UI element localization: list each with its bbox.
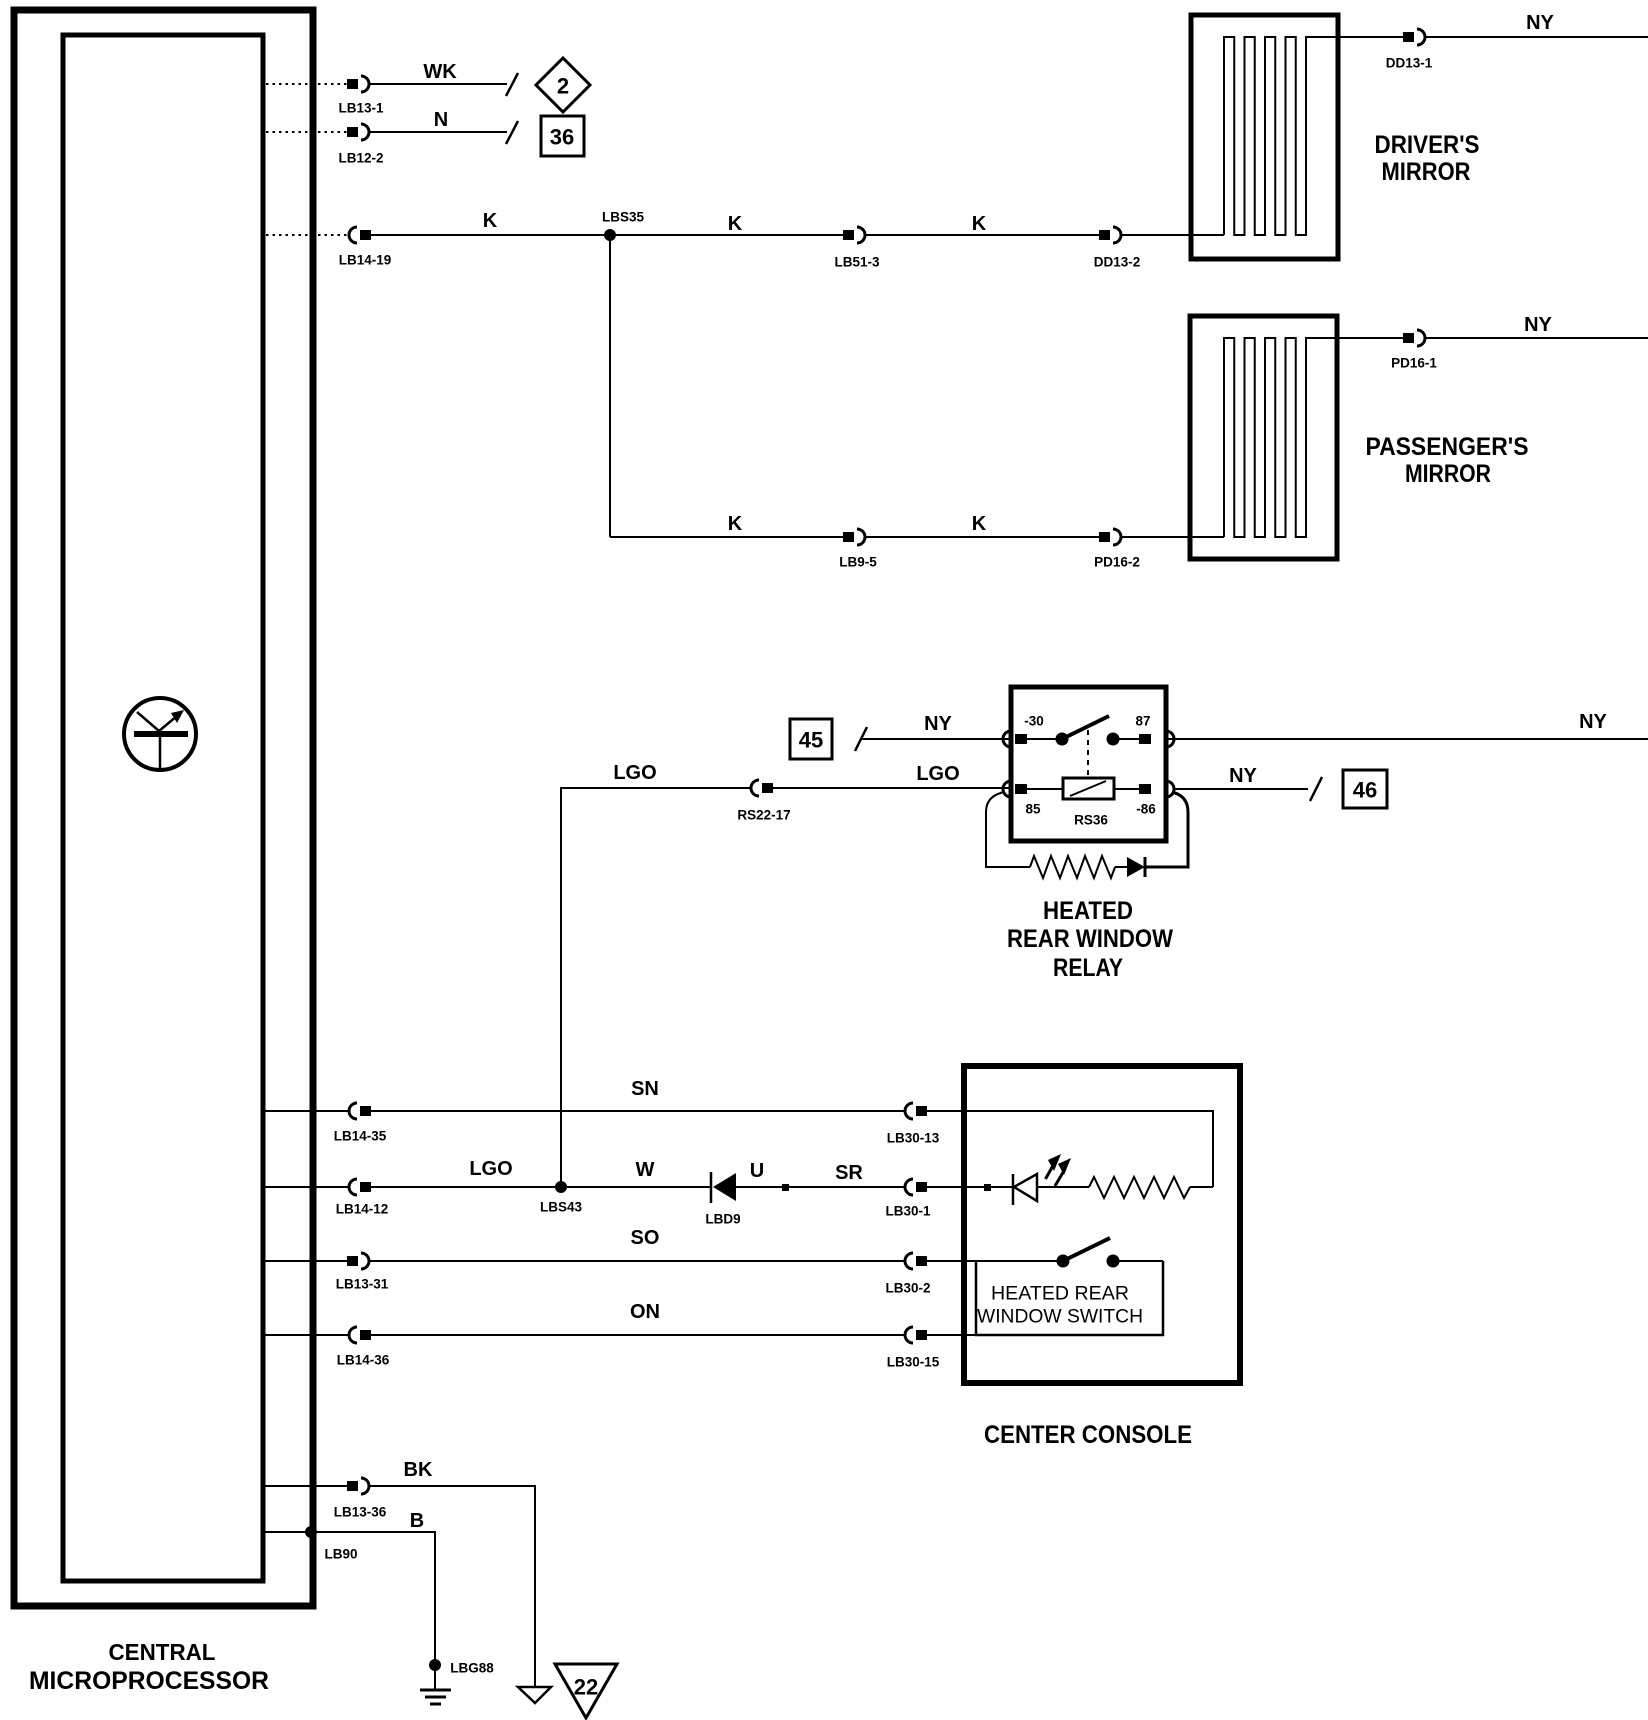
wire LED to resistor (1037, 1186, 1089, 1188)
wire N stub from microprocessor (266, 131, 347, 133)
resistor in console (1089, 1177, 1190, 1198)
connector LB9-5 (843, 529, 865, 545)
svg-text:RS22-17: RS22-17 (737, 808, 790, 823)
svg-text:K: K (728, 513, 743, 535)
node LBS35 (604, 229, 616, 241)
svg-text:87: 87 (1135, 714, 1150, 729)
wire ON to console (371, 1334, 905, 1336)
wire SO inside console to switch (927, 1260, 1057, 1262)
wire NY from passenger mirror (1337, 337, 1403, 339)
svg-text:W: W (636, 1159, 655, 1181)
wire break slash N (506, 121, 518, 144)
wire SO to console (369, 1260, 905, 1262)
svg-text:NY: NY (1526, 12, 1554, 34)
wire BK stub from microprocessor (265, 1485, 349, 1487)
junction dot on wire U (782, 1184, 789, 1191)
relay actuation dashed link (1087, 730, 1089, 778)
center console box (964, 1066, 1240, 1383)
heated rear window relay box RS36 (1011, 687, 1166, 841)
relay pin 30 (1003, 714, 1044, 748)
connector DD13-2 (1099, 227, 1121, 243)
relay switch contact (1027, 716, 1139, 746)
connector LB13-36 (347, 1478, 369, 1494)
connector LB51-3 (843, 227, 865, 243)
driver mirror box (1191, 15, 1338, 259)
ground symbol (420, 1690, 451, 1704)
ground arrow head (518, 1687, 551, 1703)
grid reference box 46 (1343, 770, 1387, 808)
wire K into passenger mirror (1121, 536, 1224, 538)
svg-text:LB30-1: LB30-1 (885, 1204, 931, 1219)
svg-text:LB30-2: LB30-2 (885, 1281, 930, 1296)
relay coil (1063, 778, 1114, 799)
connector PD16-1 (1403, 330, 1425, 346)
wire LGO to node LBS43 (371, 1186, 561, 1188)
svg-text:LB13-36: LB13-36 (334, 1505, 387, 1520)
wire K node to LB9-5 (610, 536, 843, 538)
wire NY to edge (1425, 36, 1648, 38)
wire K LB51-3 to DD13-2 (865, 234, 1099, 236)
wire NY from driver mirror (1338, 36, 1403, 38)
wire SR inside console to LED (927, 1186, 1013, 1188)
svg-text:BK: BK (404, 1459, 433, 1481)
wire break slash NY 46 (1310, 777, 1322, 801)
LED indicator in console (1013, 1154, 1071, 1205)
connector LB13-31 (347, 1253, 369, 1269)
wire to ground symbol (434, 1665, 436, 1690)
svg-text:HEATED: HEATED (1043, 897, 1133, 925)
wire NY to edge (1425, 337, 1648, 339)
heated rear window switch outline box (976, 1261, 1163, 1335)
diode LBD9 (705, 1172, 740, 1227)
svg-text:NY: NY (1229, 765, 1257, 787)
svg-text:PD16-2: PD16-2 (1094, 555, 1140, 570)
connector LB30-15 (905, 1327, 927, 1343)
svg-text:36: 36 (550, 125, 574, 150)
svg-text:LB12-2: LB12-2 (338, 151, 383, 166)
svg-text:HEATED REAR: HEATED REAR (991, 1284, 1129, 1305)
svg-text:LB14-12: LB14-12 (336, 1202, 389, 1217)
wire W node to diode (561, 1186, 711, 1188)
wire K vertical from LBS35 to passenger branch (609, 235, 611, 537)
wire SN inside console (927, 1111, 1213, 1187)
svg-text:K: K (728, 213, 743, 235)
connector LB30-2 (905, 1253, 927, 1269)
wire break slash NY 45 (855, 727, 867, 751)
wire SN to console (371, 1110, 905, 1112)
connector PD16-2 (1099, 529, 1121, 545)
node LBS43 (555, 1181, 567, 1193)
connector LB14-35 (349, 1103, 371, 1119)
connector LB12-2 (347, 124, 369, 140)
connector LB14-19 (349, 227, 371, 243)
wire U diode to LB30-1 (736, 1186, 905, 1188)
svg-text:ON: ON (630, 1301, 660, 1323)
wire WK stub from microprocessor (266, 83, 347, 85)
relay suppression loop wire right (1145, 792, 1188, 867)
grid reference box 36 (541, 116, 584, 156)
svg-text:LB14-19: LB14-19 (339, 253, 392, 268)
connector LB13-1 (347, 76, 369, 92)
wire ON stub from microprocessor (265, 1334, 349, 1336)
svg-text:LB13-31: LB13-31 (336, 1277, 389, 1292)
junction dot inside console (984, 1184, 991, 1191)
ground splice LBG88 (429, 1659, 441, 1671)
wire B from microprocessor to ground (265, 1532, 435, 1662)
svg-text:LB30-13: LB30-13 (887, 1131, 940, 1146)
heated rear window switch (1057, 1238, 1164, 1268)
svg-text:MIRROR: MIRROR (1405, 460, 1491, 488)
svg-text:SN: SN (631, 1078, 659, 1100)
svg-text:K: K (972, 213, 987, 235)
svg-text:LB14-35: LB14-35 (334, 1129, 387, 1144)
relay pin 87 (1135, 714, 1174, 748)
relay pin 86 (1114, 781, 1174, 817)
relay suppression loop wire left (986, 792, 1030, 867)
svg-text:RS36: RS36 (1074, 813, 1108, 828)
wire K LB9-5 to PD16-2 (865, 536, 1099, 538)
ground reference triangle 22 (555, 1664, 617, 1718)
svg-text:LBS43: LBS43 (540, 1200, 583, 1215)
wire SN stub from microprocessor (265, 1110, 349, 1112)
wire K node to LB51-3 (610, 234, 843, 236)
svg-text:LB9-5: LB9-5 (839, 555, 877, 570)
svg-text:45: 45 (799, 728, 823, 753)
svg-text:NY: NY (1524, 314, 1552, 336)
svg-text:DD13-2: DD13-2 (1094, 255, 1141, 270)
svg-text:PASSENGER'S: PASSENGER'S (1366, 433, 1529, 461)
svg-text:LB13-1: LB13-1 (338, 101, 384, 116)
svg-text:NY: NY (1579, 711, 1607, 733)
connector LB14-36 (349, 1327, 371, 1343)
ring reference diamond 2 (536, 58, 590, 112)
svg-text:N: N (434, 109, 448, 131)
wire SO stub from microprocessor (265, 1260, 349, 1262)
svg-text:LB90: LB90 (324, 1547, 357, 1562)
svg-text:SR: SR (835, 1162, 863, 1184)
wire NY relay pin 87 to edge (1166, 738, 1648, 740)
wire N (369, 131, 507, 133)
connector LB30-1 (905, 1179, 927, 1195)
svg-text:46: 46 (1353, 778, 1377, 803)
wire NY relay pin 86 to slash (1174, 788, 1308, 790)
svg-text:LGO: LGO (916, 763, 959, 785)
svg-text:LBD9: LBD9 (705, 1212, 740, 1227)
svg-text:RELAY: RELAY (1053, 954, 1123, 982)
connector DD13-1 (1403, 29, 1425, 45)
svg-text:K: K (483, 210, 498, 232)
transistor symbol inside microprocessor (124, 698, 196, 770)
connector LB30-13 (905, 1103, 927, 1119)
relay pin 85 (1003, 781, 1063, 817)
connector LB14-12 (349, 1179, 371, 1195)
svg-text:WINDOW SWITCH: WINDOW SWITCH (977, 1307, 1143, 1328)
svg-text:LBG88: LBG88 (450, 1661, 494, 1676)
junction LB90 on microprocessor edge (305, 1526, 317, 1538)
wire LGO stub from microprocessor (265, 1186, 349, 1188)
svg-text:MICROPROCESSOR: MICROPROCESSOR (29, 1667, 269, 1695)
svg-text:WK: WK (423, 61, 457, 83)
passenger mirror box (1190, 316, 1337, 559)
wire ON inside console (927, 1334, 976, 1336)
svg-text:NY: NY (924, 713, 952, 735)
svg-text:LB51-3: LB51-3 (834, 255, 880, 270)
svg-text:DRIVER'S: DRIVER'S (1375, 131, 1480, 159)
grid reference box 45 (790, 719, 832, 759)
svg-text:CENTRAL: CENTRAL (109, 1639, 216, 1665)
svg-text:LGO: LGO (469, 1158, 512, 1180)
wire NY from 45 to relay pin 30 (862, 738, 1011, 740)
svg-text:-30: -30 (1024, 714, 1044, 729)
svg-text:K: K (972, 513, 987, 535)
wire LGO RS22-17 to relay pin 85 (773, 787, 1011, 789)
svg-text:SO: SO (631, 1227, 660, 1249)
svg-text:22: 22 (574, 1675, 598, 1700)
svg-text:2: 2 (557, 74, 569, 99)
svg-text:LB14-36: LB14-36 (337, 1353, 390, 1368)
central microprocessor inner box (63, 35, 263, 1581)
wire resistor to corner (1190, 1186, 1213, 1188)
svg-text:PD16-1: PD16-1 (1391, 356, 1437, 371)
wire LGO corner to RS22-17 (561, 788, 752, 1186)
svg-text:85: 85 (1025, 802, 1041, 817)
wire K into driver mirror (1121, 234, 1224, 236)
svg-text:DD13-1: DD13-1 (1386, 56, 1433, 71)
passenger mirror heater element (1224, 338, 1337, 537)
svg-text:LGO: LGO (613, 762, 656, 784)
svg-text:B: B (410, 1510, 424, 1532)
wire BK to ground arrow (369, 1486, 535, 1686)
relay suppression diode (1115, 857, 1145, 877)
wire K stub from microprocessor (266, 234, 347, 236)
svg-text:U: U (750, 1160, 764, 1182)
svg-text:-86: -86 (1136, 802, 1156, 817)
svg-text:LB30-15: LB30-15 (887, 1355, 940, 1370)
wire break slash WK (506, 73, 518, 96)
svg-text:LBS35: LBS35 (602, 210, 645, 225)
driver mirror heater element (1224, 37, 1338, 235)
svg-text:CENTER CONSOLE: CENTER CONSOLE (984, 1421, 1192, 1449)
wire WK (369, 83, 507, 85)
svg-text:MIRROR: MIRROR (1382, 158, 1471, 186)
central microprocessor outer box (14, 10, 313, 1606)
connector RS22-17 (751, 780, 773, 796)
relay suppression resistor (1030, 856, 1115, 878)
wire K to node LBS35 (371, 234, 610, 236)
svg-text:REAR WINDOW: REAR WINDOW (1007, 925, 1173, 953)
